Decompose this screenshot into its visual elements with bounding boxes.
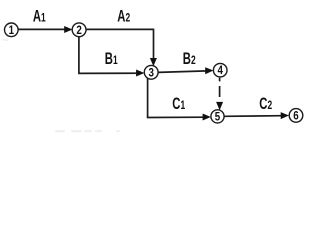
arrowhead A2 into node 3 — [150, 58, 157, 66]
svg-text:A1: A1 — [33, 8, 46, 27]
arrowhead C2 into node 6 — [281, 112, 289, 119]
svg-text:C1: C1 — [172, 95, 185, 114]
node 2 — [72, 23, 86, 37]
svg-text:5: 5 — [215, 111, 220, 124]
node 3 — [144, 65, 158, 79]
wire A2 vertical drop — [153, 29, 155, 60]
svg-text:6: 6 — [293, 110, 298, 123]
wire B1 vertical from node 2 — [78, 37, 80, 74]
arrowhead C1 into node 5 — [203, 114, 211, 121]
svg-text:4: 4 — [217, 65, 222, 78]
wire C1 vertical from node 3 — [147, 78, 149, 118]
arrowhead dummy into node 5 — [216, 102, 223, 110]
wire A2 horizontal — [86, 28, 153, 30]
svg-text:B2: B2 — [183, 50, 196, 69]
node 1 — [5, 23, 19, 37]
wire C1 horizontal — [147, 116, 205, 118]
wire B2 — [158, 71, 207, 73]
faint smudge left — [3, 39, 9, 41]
svg-text:1: 1 — [9, 24, 14, 37]
dashed dummy wire node 4 to node 5 — [219, 78, 221, 97]
node 6 — [289, 109, 303, 123]
wire C2 — [224, 115, 282, 118]
node 4 — [213, 63, 227, 77]
node 5 — [211, 110, 224, 123]
wire B1 horizontal — [78, 72, 138, 74]
svg-text:3: 3 — [148, 67, 153, 80]
arrowhead A1 into node 2 — [64, 26, 72, 33]
svg-text:B1: B1 — [105, 50, 118, 69]
svg-text:2: 2 — [76, 24, 81, 37]
svg-text:A2: A2 — [117, 8, 130, 27]
svg-text:C2: C2 — [259, 95, 272, 114]
faint print-through smudges bottom — [55, 130, 120, 132]
arrowhead B1 into node 3 — [136, 70, 144, 77]
arrowhead B2 into node 4 — [205, 67, 213, 74]
wire A1 — [18, 28, 65, 30]
